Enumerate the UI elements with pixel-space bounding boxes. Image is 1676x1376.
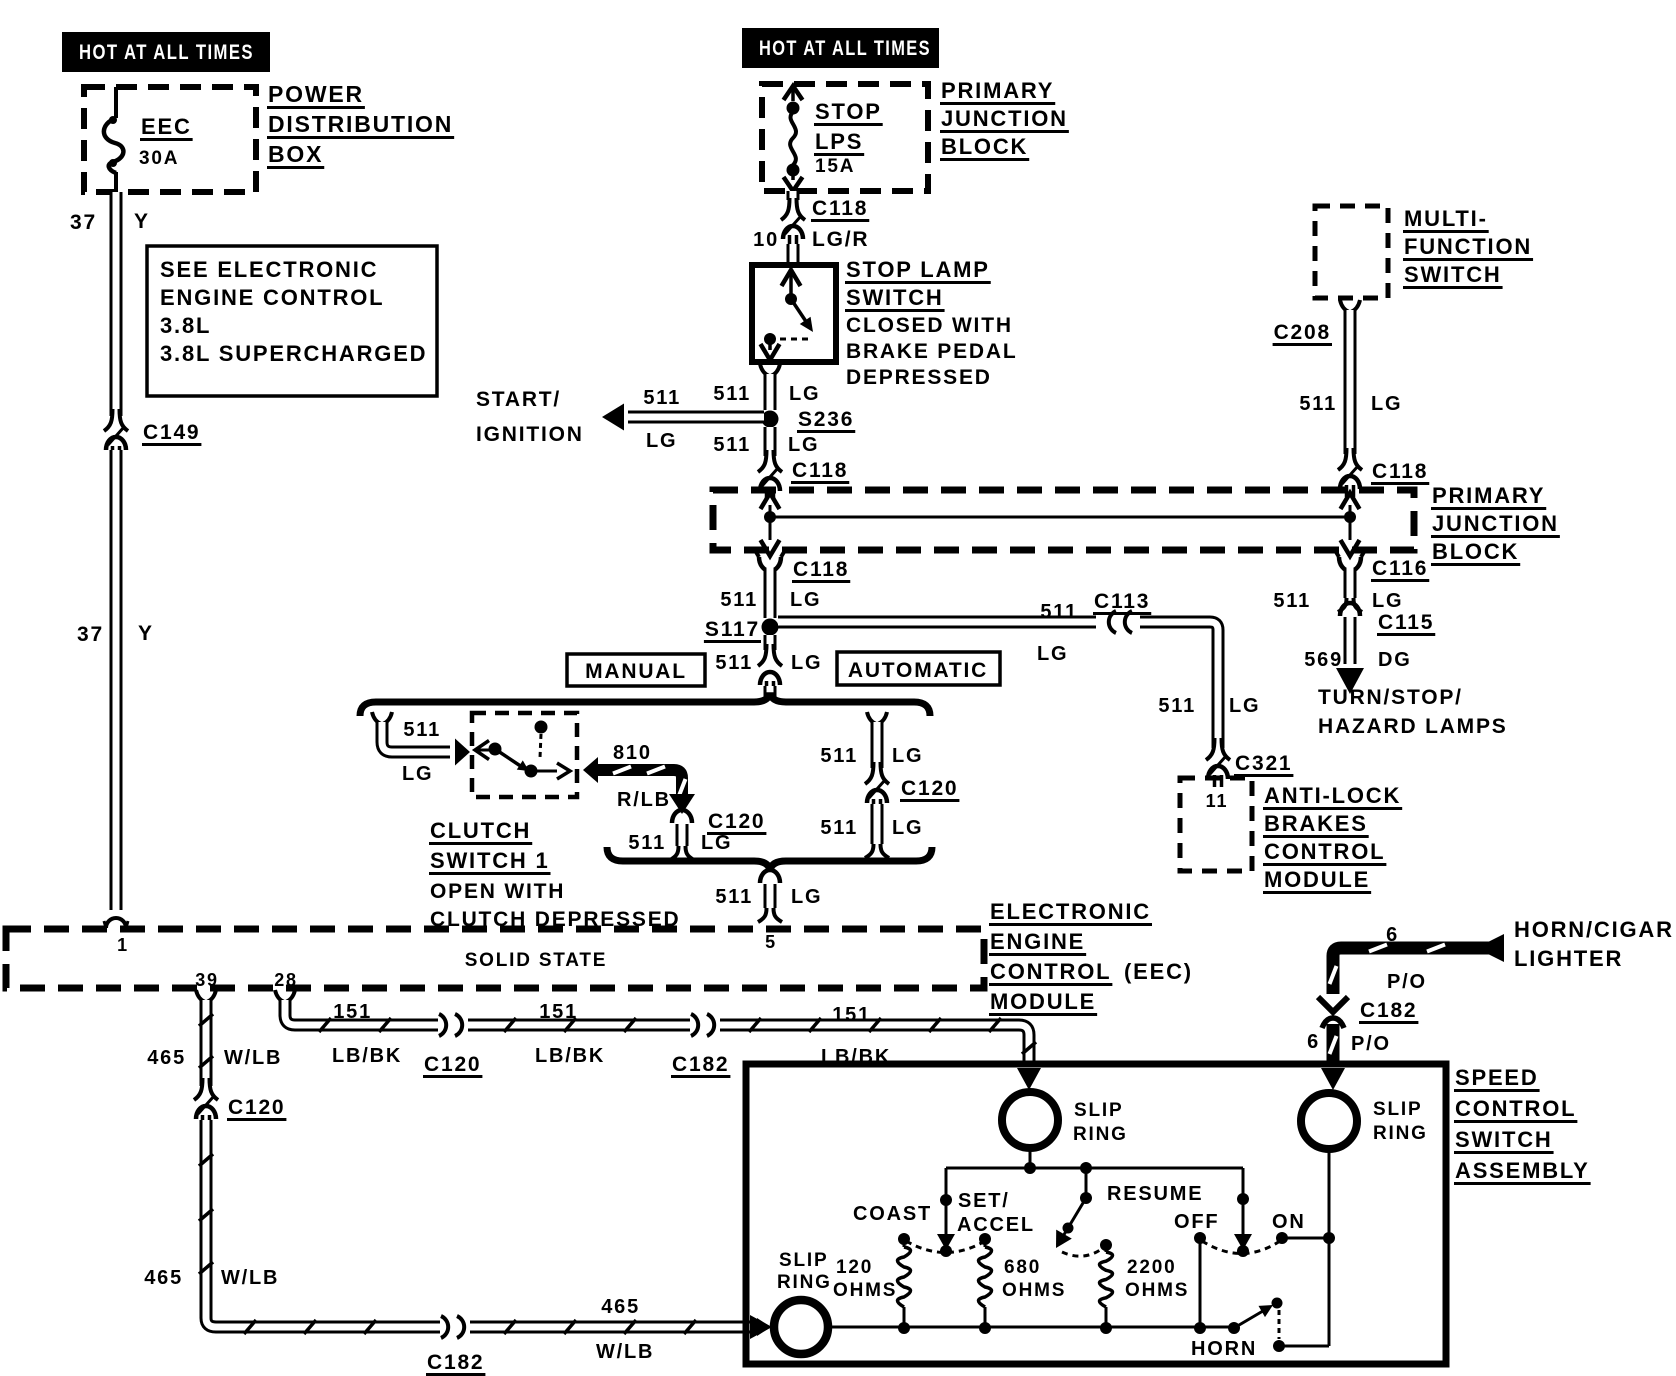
svg-text:AUTOMATIC: AUTOMATIC bbox=[848, 659, 988, 682]
svg-text:IGNITION: IGNITION bbox=[476, 423, 584, 446]
svg-text:C120: C120 bbox=[424, 1053, 481, 1076]
svg-text:C116: C116 bbox=[1372, 557, 1428, 580]
svg-text:OPEN WITH: OPEN WITH bbox=[430, 880, 565, 903]
svg-text:CLUTCH: CLUTCH bbox=[430, 818, 531, 843]
svg-text:511: 511 bbox=[1299, 393, 1337, 415]
svg-text:SPEED: SPEED bbox=[1455, 1065, 1539, 1090]
svg-text:R/LB: R/LB bbox=[617, 789, 671, 811]
svg-text:11: 11 bbox=[1206, 791, 1229, 811]
svg-text:465: 465 bbox=[601, 1296, 640, 1318]
svg-text:STOP: STOP bbox=[815, 99, 882, 124]
svg-text:3.8L SUPERCHARGED: 3.8L SUPERCHARGED bbox=[160, 341, 427, 366]
svg-text:OHMS: OHMS bbox=[1125, 1280, 1189, 1301]
svg-text:SET/: SET/ bbox=[958, 1190, 1010, 1212]
svg-text:SLIP: SLIP bbox=[1074, 1100, 1123, 1121]
svg-text:DEPRESSED: DEPRESSED bbox=[846, 366, 992, 389]
svg-text:Y: Y bbox=[134, 210, 150, 233]
svg-text:CONTROL: CONTROL bbox=[990, 959, 1111, 984]
svg-text:SWITCH: SWITCH bbox=[1404, 262, 1502, 287]
svg-text:HAZARD LAMPS: HAZARD LAMPS bbox=[1318, 715, 1508, 738]
svg-text:C120: C120 bbox=[708, 810, 765, 833]
svg-text:511: 511 bbox=[628, 832, 666, 854]
svg-text:465: 465 bbox=[144, 1267, 183, 1289]
svg-text:465: 465 bbox=[147, 1047, 186, 1069]
svg-text:SLIP: SLIP bbox=[1373, 1099, 1422, 1120]
svg-text:SLIP: SLIP bbox=[779, 1250, 828, 1271]
svg-text:C118: C118 bbox=[1372, 460, 1428, 483]
svg-text:37: 37 bbox=[77, 623, 104, 646]
svg-text:3.8L: 3.8L bbox=[160, 313, 211, 338]
svg-text:39: 39 bbox=[195, 970, 219, 990]
svg-text:CONTROL: CONTROL bbox=[1455, 1096, 1576, 1121]
svg-text:6: 6 bbox=[1386, 924, 1399, 946]
svg-text:P/O: P/O bbox=[1351, 1033, 1391, 1055]
svg-text:28: 28 bbox=[274, 970, 298, 990]
svg-text:C115: C115 bbox=[1378, 611, 1434, 634]
svg-text:C182: C182 bbox=[427, 1351, 484, 1374]
svg-text:COAST: COAST bbox=[853, 1203, 932, 1225]
svg-text:MULTI-: MULTI- bbox=[1404, 206, 1488, 231]
svg-text:151: 151 bbox=[539, 1001, 578, 1023]
svg-text:SWITCH 1: SWITCH 1 bbox=[430, 848, 550, 873]
svg-text:P/O: P/O bbox=[1387, 971, 1427, 993]
svg-text:511: 511 bbox=[403, 719, 441, 741]
svg-text:LG: LG bbox=[646, 430, 677, 452]
svg-text:511: 511 bbox=[720, 589, 758, 611]
svg-text:C182: C182 bbox=[672, 1053, 729, 1076]
svg-text:37: 37 bbox=[70, 211, 97, 234]
svg-text:ON: ON bbox=[1272, 1211, 1306, 1233]
svg-text:2200: 2200 bbox=[1127, 1257, 1176, 1278]
svg-text:RING: RING bbox=[1373, 1123, 1428, 1144]
svg-text:511: 511 bbox=[713, 383, 751, 405]
svg-text:C208: C208 bbox=[1274, 321, 1331, 344]
svg-text:680: 680 bbox=[1004, 1257, 1041, 1278]
svg-text:LB/BK: LB/BK bbox=[535, 1045, 605, 1067]
svg-text:SOLID STATE: SOLID STATE bbox=[465, 950, 608, 971]
svg-text:10: 10 bbox=[753, 229, 779, 251]
svg-text:HORN: HORN bbox=[1191, 1338, 1257, 1360]
svg-text:SWITCH: SWITCH bbox=[1455, 1127, 1553, 1152]
svg-text:LG: LG bbox=[701, 832, 732, 854]
svg-text:BLOCK: BLOCK bbox=[1432, 539, 1519, 564]
svg-text:ASSEMBLY: ASSEMBLY bbox=[1455, 1158, 1590, 1183]
svg-text:ENGINE CONTROL: ENGINE CONTROL bbox=[160, 285, 384, 310]
svg-text:ENGINE: ENGINE bbox=[990, 929, 1085, 954]
svg-text:ACCEL: ACCEL bbox=[957, 1214, 1035, 1236]
svg-text:S117: S117 bbox=[705, 618, 760, 641]
svg-text:120: 120 bbox=[836, 1257, 873, 1278]
svg-text:C118: C118 bbox=[793, 558, 849, 581]
svg-text:RING: RING bbox=[777, 1272, 832, 1293]
svg-text:C120: C120 bbox=[901, 777, 958, 800]
svg-text:C120: C120 bbox=[228, 1096, 285, 1119]
svg-text:RESUME: RESUME bbox=[1107, 1183, 1203, 1205]
svg-text:LG: LG bbox=[892, 745, 923, 767]
svg-text:LG: LG bbox=[791, 652, 822, 674]
svg-text:5: 5 bbox=[765, 932, 777, 952]
svg-text:1: 1 bbox=[117, 935, 129, 955]
svg-text:CONTROL: CONTROL bbox=[1264, 839, 1385, 864]
svg-text:STOP LAMP: STOP LAMP bbox=[846, 257, 990, 282]
svg-text:MODULE: MODULE bbox=[1264, 867, 1370, 892]
svg-text:151: 151 bbox=[832, 1004, 871, 1026]
svg-text:511: 511 bbox=[1158, 695, 1196, 717]
svg-text:LG: LG bbox=[892, 817, 923, 839]
svg-text:W/LB: W/LB bbox=[224, 1047, 282, 1069]
svg-text:OFF: OFF bbox=[1174, 1211, 1219, 1233]
svg-text:EEC: EEC bbox=[141, 114, 192, 139]
svg-text:LG: LG bbox=[789, 383, 820, 405]
svg-text:511: 511 bbox=[713, 434, 751, 456]
svg-text:START/: START/ bbox=[476, 388, 561, 411]
svg-text:Y: Y bbox=[138, 622, 154, 645]
svg-text:LG: LG bbox=[1229, 695, 1260, 717]
svg-text:511: 511 bbox=[1040, 601, 1078, 623]
svg-text:C149: C149 bbox=[143, 421, 200, 444]
svg-text:PRIMARY: PRIMARY bbox=[941, 78, 1054, 103]
svg-text:569: 569 bbox=[1304, 649, 1343, 671]
svg-text:OHMS: OHMS bbox=[1002, 1280, 1066, 1301]
svg-text:TURN/STOP/: TURN/STOP/ bbox=[1318, 686, 1463, 709]
svg-text:(EEC): (EEC) bbox=[1124, 959, 1193, 984]
svg-text:JUNCTION: JUNCTION bbox=[941, 106, 1068, 131]
svg-text:LG: LG bbox=[788, 434, 819, 456]
svg-text:C118: C118 bbox=[812, 197, 868, 220]
svg-text:LPS: LPS bbox=[815, 129, 863, 154]
svg-text:ELECTRONIC: ELECTRONIC bbox=[990, 899, 1151, 924]
svg-text:BRAKES: BRAKES bbox=[1264, 811, 1368, 836]
svg-text:C182: C182 bbox=[1360, 999, 1417, 1022]
svg-text:6: 6 bbox=[1307, 1031, 1320, 1053]
svg-text:MANUAL: MANUAL bbox=[585, 660, 687, 683]
svg-text:RING: RING bbox=[1073, 1124, 1128, 1145]
svg-text:POWER: POWER bbox=[268, 81, 364, 107]
svg-text:W/LB: W/LB bbox=[596, 1341, 654, 1363]
svg-text:BOX: BOX bbox=[268, 141, 323, 167]
svg-text:S236: S236 bbox=[798, 408, 854, 431]
svg-text:511: 511 bbox=[715, 886, 753, 908]
svg-text:LIGHTER: LIGHTER bbox=[1514, 946, 1623, 971]
svg-text:151: 151 bbox=[333, 1001, 372, 1023]
svg-text:LG: LG bbox=[791, 886, 822, 908]
svg-text:CLOSED WITH: CLOSED WITH bbox=[846, 314, 1013, 337]
svg-text:LG: LG bbox=[790, 589, 821, 611]
svg-text:511: 511 bbox=[820, 745, 858, 767]
svg-text:30A: 30A bbox=[139, 148, 179, 169]
svg-text:810: 810 bbox=[613, 742, 652, 764]
svg-text:FUNCTION: FUNCTION bbox=[1404, 234, 1532, 259]
svg-text:LG: LG bbox=[402, 763, 433, 785]
svg-text:PRIMARY: PRIMARY bbox=[1432, 483, 1545, 508]
svg-text:C118: C118 bbox=[792, 459, 848, 482]
svg-text:HOT AT ALL TIMES: HOT AT ALL TIMES bbox=[79, 41, 254, 64]
svg-text:LG: LG bbox=[1372, 590, 1403, 612]
svg-text:511: 511 bbox=[820, 817, 858, 839]
svg-text:C321: C321 bbox=[1235, 752, 1292, 775]
svg-text:LB/BK: LB/BK bbox=[332, 1045, 402, 1067]
svg-text:511: 511 bbox=[1273, 590, 1311, 612]
svg-text:15A: 15A bbox=[815, 156, 855, 177]
svg-text:LG: LG bbox=[1037, 643, 1068, 665]
svg-text:CLUTCH DEPRESSED: CLUTCH DEPRESSED bbox=[430, 908, 681, 931]
svg-text:LG/R: LG/R bbox=[812, 228, 869, 251]
svg-text:SWITCH: SWITCH bbox=[846, 285, 944, 310]
svg-text:HORN/CIGAR: HORN/CIGAR bbox=[1514, 917, 1674, 942]
svg-text:LB/BK: LB/BK bbox=[821, 1046, 891, 1068]
svg-text:SEE ELECTRONIC: SEE ELECTRONIC bbox=[160, 257, 378, 282]
svg-text:C113: C113 bbox=[1094, 590, 1150, 613]
svg-text:OHMS: OHMS bbox=[833, 1280, 897, 1301]
svg-text:MODULE: MODULE bbox=[990, 989, 1096, 1014]
svg-text:DG: DG bbox=[1378, 649, 1412, 671]
svg-text:BRAKE PEDAL: BRAKE PEDAL bbox=[846, 340, 1017, 363]
svg-text:ANTI-LOCK: ANTI-LOCK bbox=[1264, 783, 1401, 808]
svg-text:DISTRIBUTION: DISTRIBUTION bbox=[268, 111, 453, 137]
svg-text:511: 511 bbox=[715, 652, 753, 674]
svg-text:JUNCTION: JUNCTION bbox=[1432, 511, 1559, 536]
svg-text:BLOCK: BLOCK bbox=[941, 134, 1028, 159]
svg-text:511: 511 bbox=[643, 387, 681, 409]
svg-text:W/LB: W/LB bbox=[221, 1267, 279, 1289]
svg-text:HOT AT ALL TIMES: HOT AT ALL TIMES bbox=[759, 37, 931, 60]
svg-text:LG: LG bbox=[1371, 393, 1402, 415]
